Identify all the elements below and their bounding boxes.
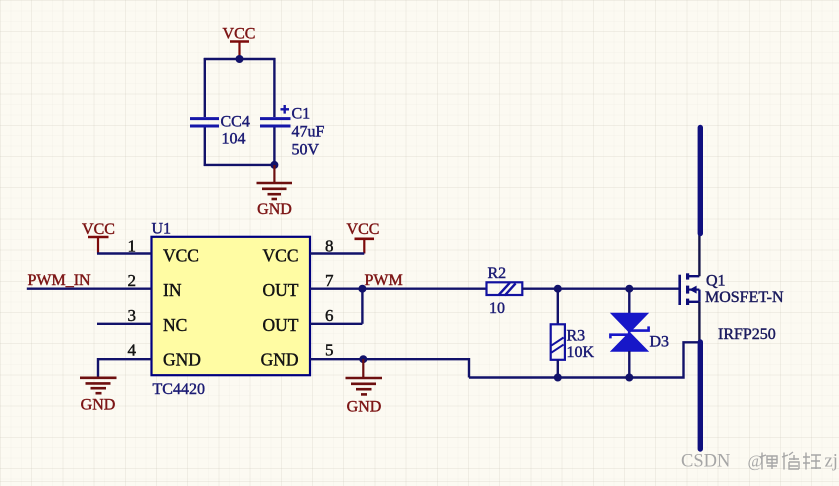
wire top rail between CC4 and C1 xyxy=(204,58,276,60)
wire source lead xyxy=(698,302,700,341)
wire drain lead xyxy=(698,233,700,276)
svg-text:IRFP250: IRFP250 xyxy=(718,326,776,343)
wire bottom rail between CC4 and C1 xyxy=(204,164,276,166)
wire R3 bottom lead xyxy=(557,360,559,378)
svg-text:VCC: VCC xyxy=(263,246,299,266)
svg-text:VCC: VCC xyxy=(163,246,199,266)
ground GND (pin 5) xyxy=(346,359,383,415)
wire pin4 to ground xyxy=(98,359,152,377)
svg-text:OUT: OUT xyxy=(263,280,299,300)
svg-text:GND: GND xyxy=(257,201,292,218)
resistor R3 xyxy=(551,324,565,360)
ground GND (below C1) xyxy=(257,165,293,218)
wire source bus (thick) xyxy=(698,342,703,449)
node junction D3 bottom xyxy=(625,374,633,382)
svg-text:104: 104 xyxy=(222,131,246,148)
svg-text:VCC: VCC xyxy=(223,26,256,43)
power symbol VCC (pin 1) xyxy=(82,221,115,254)
svg-text:OUT: OUT xyxy=(263,315,299,335)
svg-text:7: 7 xyxy=(325,271,334,290)
power symbol VCC (pin 8) xyxy=(347,221,380,254)
node junction pin7 xyxy=(358,285,366,293)
capacitor C1 (polarized) xyxy=(260,58,291,166)
wire D3 bottom lead xyxy=(628,351,630,378)
svg-text:4: 4 xyxy=(128,341,137,360)
wire pin1 to VCC xyxy=(97,252,152,254)
wire R3 top lead xyxy=(557,289,559,325)
svg-text:47uF: 47uF xyxy=(292,124,325,141)
svg-text:5: 5 xyxy=(325,341,334,360)
svg-text:U1: U1 xyxy=(152,221,172,238)
wire pin5 to rail xyxy=(310,359,469,377)
svg-text:R2: R2 xyxy=(488,265,507,282)
svg-text:GND: GND xyxy=(347,399,382,416)
wire R2 to gate xyxy=(522,288,678,290)
svg-text:TC4420: TC4420 xyxy=(153,381,205,398)
node junction R3 top xyxy=(554,285,562,293)
wire drain bus (thick) xyxy=(698,128,703,234)
svg-text:MOSFET-N: MOSFET-N xyxy=(705,289,784,306)
svg-text:10: 10 xyxy=(489,300,505,317)
resistor R2 xyxy=(487,282,523,295)
svg-text:VCC: VCC xyxy=(82,221,115,238)
svg-text:zj: zj xyxy=(825,452,838,472)
wire CC4 bottom lead xyxy=(204,128,206,167)
transistor Q1 N-MOSFET symbol xyxy=(680,273,700,305)
node junction at VCC stem xyxy=(236,55,244,63)
node junction pin5 xyxy=(359,355,367,363)
wire pin7 PWM net xyxy=(310,288,487,290)
watermark CSDN xyxy=(681,452,838,472)
power symbol VCC (top, capacitor rail) xyxy=(223,26,256,60)
node junction D3 top xyxy=(625,285,633,293)
svg-text:@: @ xyxy=(748,452,764,471)
svg-text:10K: 10K xyxy=(567,344,595,361)
svg-text:CSDN: CSDN xyxy=(681,452,730,472)
capacitor CC4 xyxy=(190,119,219,126)
svg-text:6: 6 xyxy=(325,306,334,325)
svg-text:NC: NC xyxy=(163,315,187,335)
IC U1 TC4420 xyxy=(152,237,311,375)
wire pin6 stub xyxy=(310,323,362,325)
wire bottom rail to source xyxy=(469,342,699,377)
wire pin8 to VCC xyxy=(310,252,364,254)
svg-text:C1: C1 xyxy=(292,106,311,123)
svg-text:3: 3 xyxy=(128,306,137,325)
svg-text:GND: GND xyxy=(163,350,201,370)
svg-text:PWM_IN: PWM_IN xyxy=(28,272,92,289)
svg-text:CC4: CC4 xyxy=(221,114,250,131)
wire D3 top lead xyxy=(628,289,630,314)
svg-text:GND: GND xyxy=(261,350,299,370)
svg-text:PWM: PWM xyxy=(365,272,403,289)
svg-text:2: 2 xyxy=(128,271,137,290)
svg-text:IN: IN xyxy=(163,280,182,300)
svg-text:Q1: Q1 xyxy=(706,273,726,290)
wire pin7 to pin6 xyxy=(361,289,363,324)
node junction at C1 bottom xyxy=(270,161,278,169)
svg-text:50V: 50V xyxy=(292,142,320,159)
wire pin3 stub xyxy=(97,323,152,325)
svg-text:GND: GND xyxy=(81,397,116,414)
svg-text:D3: D3 xyxy=(650,334,670,351)
wire pin2 input xyxy=(27,288,152,290)
ground GND (pin 4) xyxy=(80,378,117,414)
diode D3 (bidirectional TVS) xyxy=(610,313,648,351)
svg-text:R3: R3 xyxy=(567,328,586,345)
node junction R3 bottom xyxy=(554,374,562,382)
svg-text:VCC: VCC xyxy=(347,221,380,238)
wire CC4 top lead xyxy=(204,58,206,117)
